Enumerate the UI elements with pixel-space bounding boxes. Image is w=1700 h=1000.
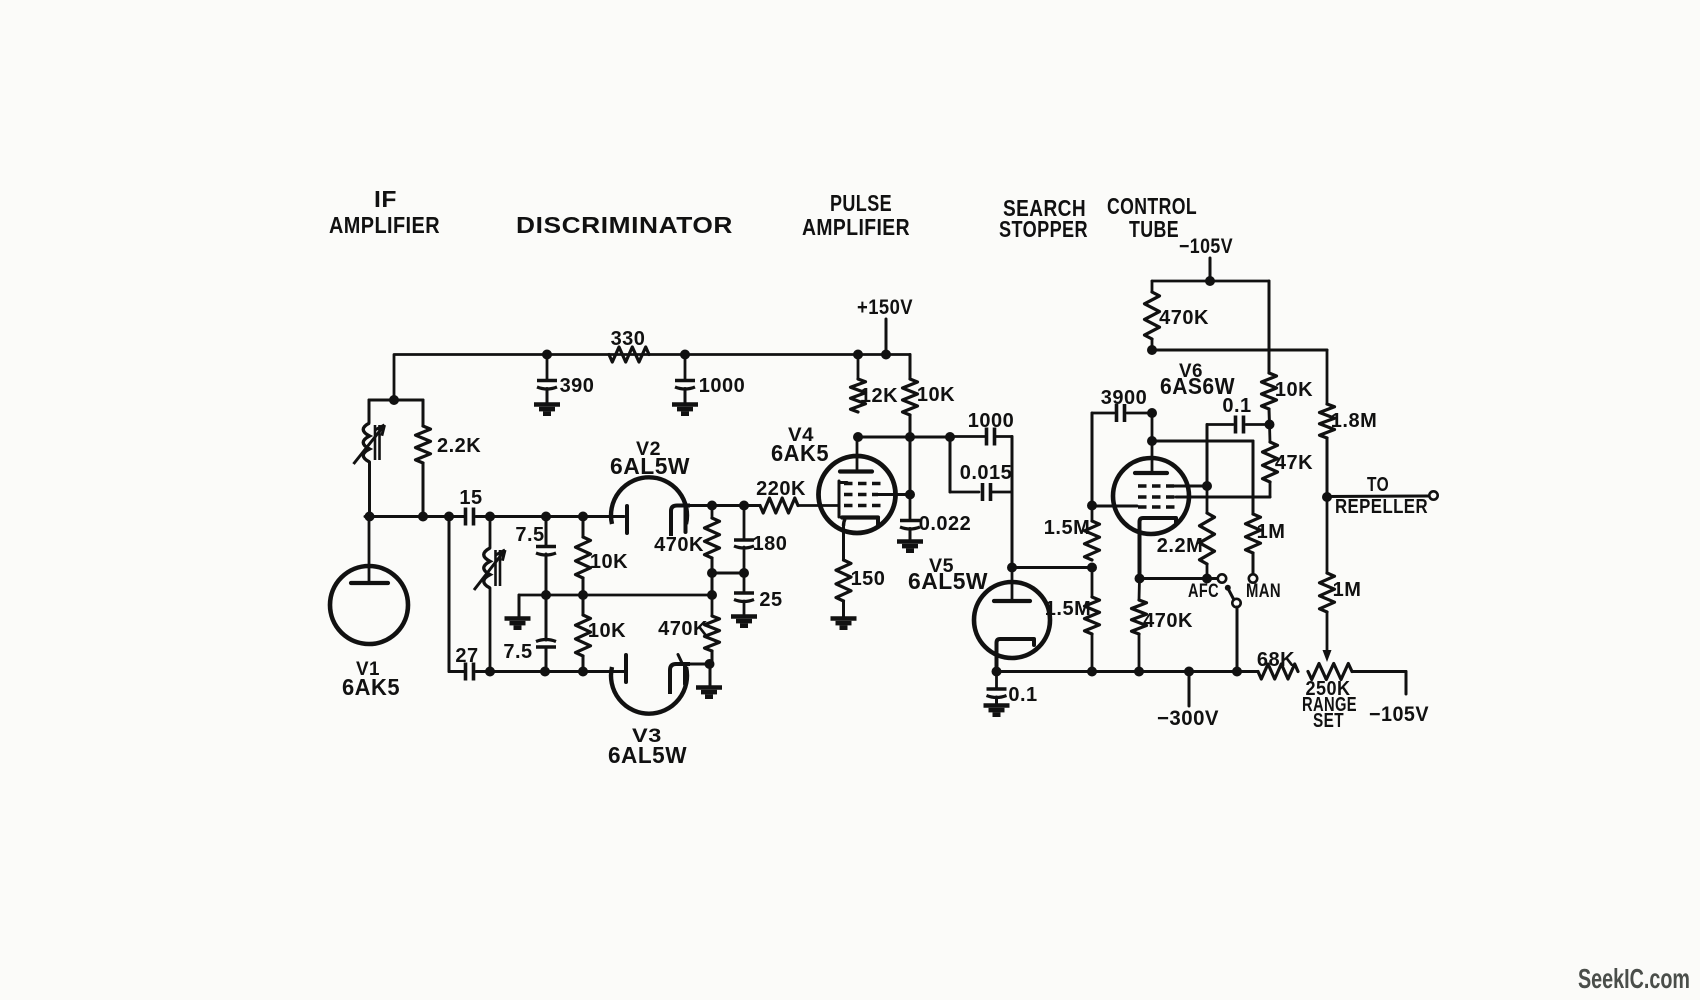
svg-text:DISCRIMINATOR: DISCRIMINATOR bbox=[516, 212, 733, 238]
svg-text:47K: 47K bbox=[1275, 452, 1313, 474]
svg-text:MAN: MAN bbox=[1246, 581, 1281, 602]
svg-text:1.5M: 1.5M bbox=[1045, 598, 1091, 620]
wire: 10K bottom lead bbox=[582, 656, 585, 672]
svg-text:1.5M: 1.5M bbox=[1044, 517, 1090, 539]
wire: -300V lead bbox=[1188, 672, 1191, 707]
node: 7.5pF chain top junction bbox=[541, 512, 551, 522]
wire: V2 cathode to 220K node bbox=[690, 504, 760, 507]
wire: 1000 ground stem bbox=[684, 389, 687, 404]
wire: 470K bottom to V3 cathode bbox=[711, 651, 714, 664]
svg-text:0.1: 0.1 bbox=[1008, 684, 1037, 706]
capacitor 390 to ground bbox=[546, 355, 549, 380]
node: secondary coil junction bbox=[485, 512, 495, 522]
resistor 68K (series in bus) bbox=[1258, 664, 1298, 679]
resistor 1M (repeller to range pot) bbox=[1326, 497, 1329, 573]
wire: 1.8M to repeller node bbox=[1326, 438, 1329, 497]
wire: junction to 2.2K top bbox=[394, 399, 423, 402]
wire: 10K divider chain top lead bbox=[582, 517, 585, 538]
svg-text:25: 25 bbox=[759, 589, 782, 611]
V6 grid1 exit wire bbox=[1174, 485, 1207, 488]
node: V6 plate node bbox=[1147, 436, 1157, 446]
svg-text:6AK5: 6AK5 bbox=[342, 674, 400, 700]
svg-text:−105V: −105V bbox=[1369, 703, 1429, 726]
terminal: TO REPELLER bbox=[1429, 491, 1437, 499]
wire: 7.5pF chain from grid bus bbox=[545, 517, 548, 546]
node: 27pF branch junction bbox=[444, 512, 454, 522]
node: 2.2K junction on grid bus bbox=[418, 512, 428, 522]
svg-text:PULSE: PULSE bbox=[830, 190, 892, 216]
node: V5 cathode junction bbox=[992, 667, 1002, 677]
wire: centre-tap ground stem bbox=[518, 595, 521, 617]
capacitor 1000 to ground bbox=[684, 355, 687, 380]
svg-text:7.5: 7.5 bbox=[503, 641, 532, 663]
wire: coil bottom to grid bus bbox=[368, 462, 371, 517]
V6 grid dashes row 3 bbox=[1138, 505, 1177, 509]
svg-text:1000: 1000 bbox=[699, 375, 746, 397]
svg-text:0.022: 0.022 bbox=[919, 513, 972, 535]
svg-text:2.2K: 2.2K bbox=[437, 435, 481, 457]
resistor 1.5M (lower divider) bbox=[1091, 568, 1094, 598]
resistor 10K (discriminator lower) bbox=[576, 615, 591, 656]
node: -105V junction bbox=[1205, 276, 1215, 286]
wire: 0.015 branch drop bbox=[949, 437, 952, 492]
svg-text:10K: 10K bbox=[1275, 379, 1313, 401]
V4 cathode element bbox=[842, 515, 878, 519]
node: 12K top junction bbox=[853, 350, 863, 360]
svg-text:15: 15 bbox=[459, 487, 482, 509]
wire: -105V top rail bbox=[1152, 280, 1269, 283]
svg-text:390: 390 bbox=[560, 375, 595, 397]
transformer T1 tunable IF coil bbox=[363, 423, 369, 462]
V4 grid dashes row 2 bbox=[844, 493, 878, 497]
wire: balance junction down to centre tap bbox=[711, 573, 714, 595]
capacitor 3900 (series to grid rail) bbox=[1092, 412, 1114, 415]
capacitor 15 (series, grid bus) bbox=[464, 508, 468, 526]
node: 470K top junction bbox=[707, 501, 717, 511]
resistor 470K (cathode to bus) bbox=[1138, 579, 1141, 601]
node: V6 cathode junction bbox=[1135, 574, 1145, 584]
svg-text:6AS6W: 6AS6W bbox=[1160, 373, 1235, 399]
svg-text:3900: 3900 bbox=[1101, 387, 1148, 409]
V4 screen exit wire bbox=[878, 493, 910, 496]
node: 12K bottom plate node bbox=[853, 432, 863, 442]
svg-text:SET: SET bbox=[1313, 710, 1344, 732]
capacitor 25 to ground bbox=[743, 573, 746, 592]
node: 1.5M mid junction bbox=[1087, 563, 1097, 573]
capacitor 27 (series, lower bus) bbox=[464, 663, 468, 681]
wire: 1M to MAN contact bbox=[1252, 553, 1255, 574]
capacitor 0.022 (screen bypass) bbox=[909, 495, 912, 520]
node: 0.1/47K junction bbox=[1265, 420, 1275, 430]
node: suppressor junction bbox=[1087, 501, 1097, 511]
resistor 470K (discriminator lower) bbox=[711, 595, 714, 616]
svg-text:220K: 220K bbox=[756, 478, 806, 500]
wire: rail corner down to 10K bbox=[1268, 281, 1271, 373]
V2 cathode element bbox=[671, 506, 690, 537]
wire: 0.022 ground stem bbox=[909, 529, 912, 541]
node: centre tap junction bbox=[707, 590, 717, 600]
resistor 1M (plate to MAN) bbox=[1246, 514, 1261, 553]
svg-text:12K: 12K bbox=[860, 385, 898, 407]
svg-text:6AL5W: 6AL5W bbox=[908, 568, 988, 594]
transformer T1 secondary tunable coil bbox=[489, 517, 492, 549]
ground (0.1 V5) bbox=[984, 703, 1010, 708]
node: 470K bottom junction on bus bbox=[1134, 667, 1144, 677]
svg-text:IF: IF bbox=[374, 186, 397, 212]
ground (25pF) bbox=[731, 614, 757, 619]
svg-text:6AL5W: 6AL5W bbox=[608, 742, 687, 768]
node: 180pF top junction bbox=[739, 501, 749, 511]
svg-text:TUBE: TUBE bbox=[1129, 216, 1179, 242]
wire: 0.1 ground stem bbox=[995, 697, 998, 704]
wire: branch down to 27pF lower bus bbox=[448, 517, 451, 672]
V4 grid rail bbox=[838, 481, 841, 517]
wire: discriminator centre tap bbox=[519, 594, 712, 597]
svg-text:68K: 68K bbox=[1257, 649, 1295, 671]
wire: between 10K resistors bbox=[582, 578, 585, 615]
capacitor 1000 (coupling, series) bbox=[950, 435, 986, 438]
resistor 470K (discriminator upper) bbox=[711, 506, 714, 519]
wire: coupling node down to V5 bbox=[1011, 437, 1014, 568]
resistor 12K (V4 plate load) bbox=[857, 355, 860, 380]
node: -300V junction on bus bbox=[1184, 667, 1194, 677]
wire: 7.5pF lower leg bbox=[545, 595, 548, 640]
node: switch pole junction on bus bbox=[1232, 667, 1242, 677]
node: 390pF junction on top bus bbox=[542, 350, 552, 360]
V3 plate bar bbox=[624, 655, 628, 682]
wire: 470K to balance junction bbox=[711, 558, 714, 573]
tube V5 (6AL5W search stopper diode) bbox=[974, 582, 1050, 658]
tube V2 (6AL5W discriminator diode, upper) bbox=[611, 477, 687, 524]
node: grid1/0.1 junction bbox=[1202, 481, 1212, 491]
svg-text:−300V: −300V bbox=[1157, 707, 1219, 730]
capacitor 7.5 (upper) bbox=[536, 545, 556, 549]
wire: 2.2K bottom to grid bus bbox=[422, 463, 425, 517]
svg-text:330: 330 bbox=[611, 328, 646, 350]
wire: 390 ground stem bbox=[546, 389, 549, 404]
node: repeller junction bbox=[1322, 492, 1332, 502]
potentiometer 250K RANGE SET bbox=[1308, 664, 1352, 680]
switch MAN contact bbox=[1249, 574, 1257, 582]
wire: top bus from IF transformer to pulse amplifier B+ rail bbox=[394, 355, 910, 401]
capacitor 0.1 (search stopper) to ground bbox=[995, 672, 998, 689]
resistor 2.2M (grid1 to cathode) bbox=[1206, 486, 1209, 513]
svg-text:10K: 10K bbox=[917, 384, 955, 406]
resistor 10K (to -105V) bbox=[1262, 373, 1277, 409]
V3 cathode element bbox=[670, 664, 690, 694]
svg-text:AMPLIFIER: AMPLIFIER bbox=[802, 214, 910, 240]
node: screen pin junction bbox=[905, 490, 915, 500]
pot wiper arrow bbox=[1326, 612, 1329, 650]
V6 cathode element bbox=[1140, 518, 1177, 578]
svg-text:1000: 1000 bbox=[968, 410, 1015, 432]
wire: plate node to coupling caps bbox=[858, 436, 950, 439]
capacitor 0.1 (V6 feedback, series) bbox=[1207, 423, 1233, 426]
svg-text:REPELLER: REPELLER bbox=[1335, 496, 1428, 518]
node: screen crossing junction bbox=[905, 432, 915, 442]
wire: 3900 corner down to V6 suppressor bbox=[1091, 413, 1094, 506]
wire: switch pole to bottom bus bbox=[1236, 607, 1239, 672]
V6 suppressor exit wire bbox=[1092, 505, 1137, 508]
wire: -105V lead bbox=[1209, 258, 1212, 281]
resistor 330 (series, top bus) bbox=[609, 347, 649, 362]
wire: lower discriminator bus bbox=[449, 670, 464, 673]
resistor 47K (screen) bbox=[1268, 425, 1271, 443]
tube V3 (6AL5W discriminator diode, lower) bbox=[611, 667, 687, 714]
svg-text:10K: 10K bbox=[590, 551, 628, 573]
V6 plate bar and lead bbox=[1151, 413, 1154, 471]
V6 screen exit wire bbox=[1176, 496, 1270, 499]
svg-text:150: 150 bbox=[851, 568, 886, 590]
wire: V5 plate tie to 1.5M divider bbox=[1012, 566, 1092, 569]
switch AFC contact bbox=[1218, 574, 1226, 582]
node: 10K chain bottom junction bbox=[578, 667, 588, 677]
svg-text:10K: 10K bbox=[588, 620, 626, 642]
tube V6 (6AS6W control tube) bbox=[1113, 458, 1189, 534]
svg-text:+150V: +150V bbox=[857, 296, 913, 319]
wire: +150V lead bbox=[885, 319, 888, 355]
wire: V6 plate to 1M bbox=[1152, 440, 1253, 443]
node: 7.5 chain bottom junction bbox=[540, 667, 550, 677]
wire: repeller stub bbox=[1327, 495, 1429, 499]
node: coupling branch junction bbox=[945, 432, 955, 442]
svg-text:6AL5W: 6AL5W bbox=[610, 453, 690, 479]
node: balance junction 470K bbox=[707, 568, 717, 578]
resistor 470K (from -105V) bbox=[1151, 281, 1154, 292]
svg-text:AFC: AFC bbox=[1188, 581, 1219, 602]
ground (V4 cathode) bbox=[831, 616, 857, 621]
node: cap chain mid junction bbox=[739, 568, 749, 578]
node: V3 cathode junction bbox=[705, 659, 715, 669]
ground (V3 cathode) bbox=[696, 685, 722, 690]
resistor 1.5M (upper divider) bbox=[1091, 506, 1094, 522]
tube V1 (6AK5 IF amplifier) bbox=[330, 566, 408, 644]
wire: V1 grid bus (upper discriminator bus) bbox=[365, 515, 464, 518]
svg-text:470K: 470K bbox=[1143, 610, 1193, 632]
svg-text:TO: TO bbox=[1367, 474, 1389, 496]
V6 grid dashes row 2 bbox=[1138, 495, 1176, 499]
svg-text:180: 180 bbox=[753, 533, 788, 555]
svg-text:1M: 1M bbox=[1257, 521, 1286, 543]
wire: junction to transformer top bbox=[369, 399, 394, 402]
node: +150V junction bbox=[881, 350, 891, 360]
wire: 10K bottom to 0.1 node bbox=[1268, 409, 1272, 425]
node: IF transformer top junction bbox=[389, 395, 399, 405]
node: V1 plate junction on grid bus bbox=[365, 512, 375, 522]
node: 1.5M bottom junction on bus bbox=[1087, 667, 1097, 677]
capacitor 180 on divider bbox=[743, 506, 746, 540]
tube V4 (6AK5 pulse amplifier) bbox=[819, 456, 896, 533]
ground (0.022) bbox=[897, 539, 923, 544]
wire: 0.1 left leg down to grid node bbox=[1206, 425, 1209, 487]
V4 grid dashes row 1 bbox=[844, 482, 881, 486]
switch pole and lever bbox=[1232, 599, 1240, 607]
svg-text:27: 27 bbox=[455, 645, 478, 667]
node: V5 plate junction bbox=[1007, 563, 1017, 573]
node: secondary coil bottom junction bbox=[485, 667, 495, 677]
resistor 10K (discriminator upper) bbox=[576, 537, 591, 578]
V4 plate bar and lead bbox=[856, 437, 859, 471]
wire: bottom return bus bbox=[997, 670, 1259, 673]
node: 1000pF junction on top bus bbox=[680, 350, 690, 360]
wire: bus corner down to 10K bbox=[909, 355, 912, 380]
wire: bus corner to -105V bbox=[1405, 672, 1408, 695]
svg-text:SeekIC.com: SeekIC.com bbox=[1578, 963, 1690, 994]
svg-text:2.2M: 2.2M bbox=[1157, 535, 1203, 557]
V5 plate bar and lead bbox=[1011, 568, 1014, 600]
svg-text:AMPLIFIER: AMPLIFIER bbox=[329, 212, 440, 238]
node: 10K chain top junction bbox=[578, 512, 588, 522]
svg-text:STOPPER: STOPPER bbox=[999, 216, 1088, 242]
wire: cathode to AFC contact bbox=[1140, 577, 1218, 580]
resistor 150 (V4 cathode bias) bbox=[836, 560, 851, 601]
ground (discriminator centre tap) bbox=[505, 616, 531, 621]
svg-text:−105V: −105V bbox=[1179, 235, 1233, 258]
wire: 150 to ground bbox=[842, 601, 845, 617]
wire: bias junction rail to 1.8M bbox=[1152, 349, 1327, 352]
node: chain mid junction bbox=[541, 590, 551, 600]
svg-text:1M: 1M bbox=[1333, 579, 1362, 601]
svg-text:470K: 470K bbox=[654, 534, 704, 556]
wire: 10K to screen node bbox=[909, 415, 912, 494]
node: V6 grid bias junction bbox=[1147, 345, 1157, 355]
resistor 1.8M bbox=[1326, 350, 1329, 404]
node: 3900 junction bbox=[1147, 408, 1157, 418]
ground (1000pF) bbox=[672, 402, 698, 407]
wire: V3 cathode ground stem bbox=[709, 664, 712, 686]
ground (390pF) bbox=[534, 402, 560, 407]
resistor 2.2K (IF plate load) bbox=[416, 426, 431, 463]
resistor 10K (V4 screen dropper) bbox=[903, 379, 918, 415]
node: 2.2M bottom junction bbox=[1202, 574, 1212, 584]
V5 cathode element bbox=[997, 639, 1035, 672]
svg-text:1.8M: 1.8M bbox=[1331, 410, 1377, 432]
capacitor 7.5 (lower) bbox=[536, 645, 556, 649]
V6 grid dashes row 1 bbox=[1138, 484, 1174, 488]
wire: V4 cathode lead bbox=[842, 526, 845, 560]
svg-text:470K: 470K bbox=[1159, 307, 1209, 329]
resistor 220K (V4 grid stopper) bbox=[744, 504, 760, 507]
svg-text:470K: 470K bbox=[658, 618, 708, 640]
capacitor 0.015 (coupling, series) bbox=[950, 491, 979, 494]
V4 grid dashes row 3 bbox=[844, 504, 882, 508]
V2 plate bar bbox=[625, 506, 629, 533]
wire: balance tie bbox=[712, 572, 744, 575]
node: 10K chain mid junction bbox=[578, 590, 588, 600]
svg-text:7.5: 7.5 bbox=[515, 524, 544, 546]
svg-text:0.015: 0.015 bbox=[960, 462, 1013, 484]
svg-text:6AK5: 6AK5 bbox=[771, 440, 829, 466]
